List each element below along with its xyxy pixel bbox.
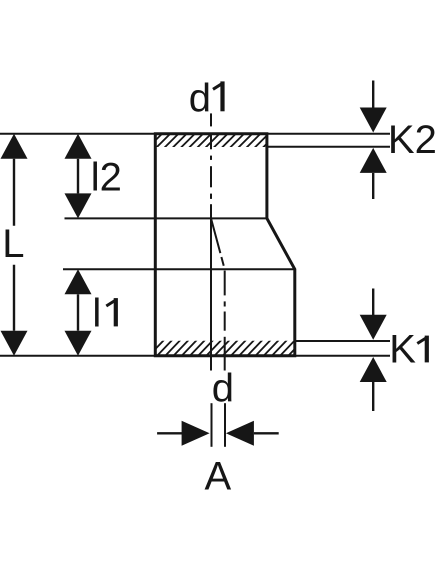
dimension l2 line with arrows: [65, 134, 92, 219]
svg-text:K: K: [389, 328, 416, 372]
K2 upper extension line: [267, 133, 390, 135]
K2 lower extension line: [267, 146, 390, 148]
label K2: [388, 118, 435, 162]
K1 lower extension line: [295, 355, 390, 357]
label K1: [389, 328, 427, 372]
svg-text:d: d: [212, 366, 234, 410]
svg-text:K2: K2: [388, 118, 435, 162]
socket hatch top band: [148, 133, 286, 148]
centerline d axis (solid through hatch and below): [224, 341, 226, 371]
label l2: [91, 156, 122, 200]
dimension K2 arrows: [360, 81, 387, 200]
K1 upper extension line: [295, 340, 390, 342]
d axis extension below body (A dimension, upper stub): [224, 403, 226, 447]
reducer body outline: [155, 134, 294, 356]
svg-text:l2: l2: [91, 156, 122, 200]
svg-text:l: l: [92, 292, 101, 336]
svg-text:L: L: [2, 222, 24, 266]
centerline eccentric transition diagonal: [211, 218, 225, 269]
socket depth line (l2 lower extension): [65, 217, 267, 219]
centerline d1 axis (dash above body): [210, 113, 212, 126]
label d: [212, 366, 234, 410]
dimension l1 line with arrows: [65, 269, 92, 355]
label L: [2, 222, 24, 266]
dimension A arrows: [157, 421, 279, 446]
svg-text:A: A: [205, 454, 232, 498]
d1 axis extension below body (A dimension, upper stub): [211, 403, 213, 447]
cone shoulder line (l1 upper extension): [63, 268, 295, 270]
L lower extension line: [0, 355, 155, 357]
spigot hatch bottom band: [148, 340, 312, 357]
dimension K1 arrows: [360, 289, 387, 412]
L upper extension line: [0, 133, 155, 135]
dimension L line with arrows: [1, 134, 28, 356]
label d1: [189, 76, 223, 120]
svg-text:d: d: [189, 76, 211, 120]
centerline d1 axis (dash-dot inside body): [210, 134, 212, 218]
d1 axis extension line (solid, down through body): [210, 218, 212, 370]
centerline d axis (dash-dot): [224, 271, 226, 341]
label A: [205, 454, 232, 498]
label l1: [92, 292, 116, 336]
